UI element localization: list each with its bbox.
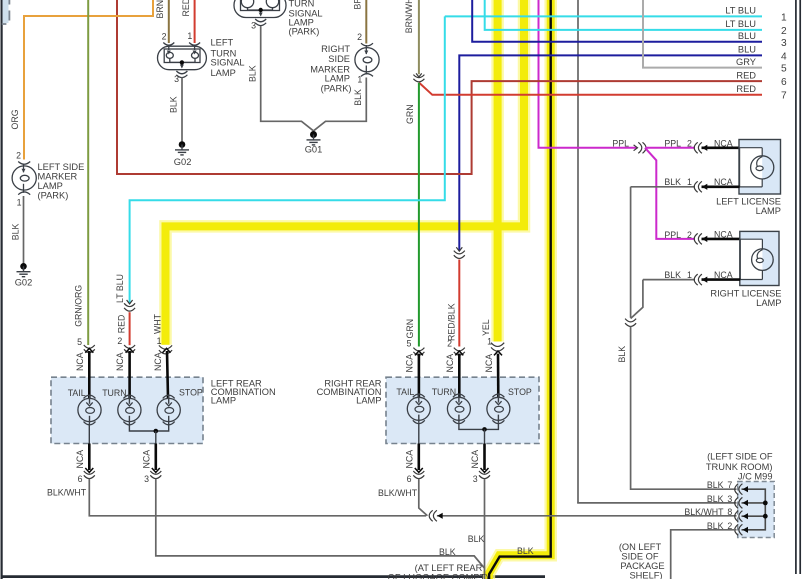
svg-text:NCA: NCA	[445, 354, 455, 373]
svg-text:1: 1	[781, 12, 787, 23]
junction connector box J/C M99	[738, 482, 775, 538]
svg-text:(ON LEFT: (ON LEFT	[619, 542, 662, 552]
wire BLK from right rear lamp pin 3 to bottom edge	[468, 479, 485, 579]
svg-text:RED: RED	[181, 0, 191, 17]
svg-text:LT BLU: LT BLU	[725, 19, 756, 29]
svg-text:NCA: NCA	[75, 450, 85, 469]
svg-text:2: 2	[357, 32, 362, 42]
svg-text:PPL: PPL	[664, 139, 681, 149]
svg-text:GRN: GRN	[405, 319, 415, 339]
label LEFT TURN SIGNAL LAMP	[211, 37, 245, 78]
svg-text:(AT LEFT REAR: (AT LEFT REAR	[415, 563, 483, 573]
bulb TURN (right)	[447, 393, 470, 423]
NCA stub into right license lamp pin 2	[664, 230, 740, 242]
pin 6 NCA stub below box (left)	[75, 444, 95, 484]
svg-text:LAMP: LAMP	[325, 74, 350, 84]
svg-text:5: 5	[406, 338, 411, 348]
svg-text:TURN: TURN	[432, 387, 456, 397]
lamp: LEFT SIDE MARKER LAMP (PARK) bulb	[12, 162, 36, 195]
inline connector LT BLU to RED	[124, 300, 135, 311]
page right border (double line)	[795, 0, 797, 574]
svg-text:3: 3	[781, 38, 787, 49]
svg-text:TAIL: TAIL	[396, 387, 414, 397]
connector at right license lamp pin 2	[694, 233, 702, 244]
svg-text:BLK/WHT: BLK/WHT	[47, 487, 87, 497]
svg-text:6: 6	[407, 474, 412, 484]
wire BLK running on yellow companion to bottom edge	[489, 0, 551, 579]
ground G01	[305, 130, 323, 155]
tail wire to box bottom (left)	[88, 424, 90, 444]
page bottom border	[1, 575, 545, 578]
svg-text:SIGNAL: SIGNAL	[211, 58, 245, 68]
svg-text:LAMP: LAMP	[356, 396, 381, 406]
svg-text:G02: G02	[174, 157, 192, 167]
svg-text:TURN: TURN	[289, 0, 315, 9]
svg-text:NCA: NCA	[404, 450, 414, 469]
wire YEL to right rear lamp pin 1	[494, 0, 502, 342]
wire BLK/yellow-pair halo	[489, 0, 551, 579]
NCA stub into left license lamp pin 2	[664, 138, 739, 151]
svg-text:BLK: BLK	[353, 89, 363, 106]
svg-text:1: 1	[17, 198, 22, 208]
wire WHT halo	[166, 0, 525, 345]
bulb STOP (right)	[487, 393, 510, 423]
svg-text:TURN: TURN	[102, 388, 126, 398]
svg-text:2: 2	[687, 230, 692, 240]
component box: RIGHT REAR COMBINATION LAMP	[386, 377, 539, 443]
wire BLK from top edge to J/C M99 pin 3 (vertical part)	[577, 0, 579, 503]
svg-text:BRN: BRN	[353, 0, 363, 10]
pin 1 NCA stub (left stop)	[153, 348, 171, 398]
bulb labels TAIL TURN STOP (left)	[68, 388, 203, 398]
junction dot inside top lamp	[259, 8, 263, 12]
wire PPL from top to inline connector	[539, 139, 637, 149]
inline connector on BLK/WHT run	[429, 510, 437, 521]
pin 5 connector and NCA stub (right tail)	[405, 338, 425, 397]
bulb labels TAIL TURN STOP (right)	[396, 387, 532, 397]
wire RED/BLK segment to right rear lamp pin 2	[447, 260, 460, 347]
svg-text:2: 2	[117, 336, 122, 346]
svg-text:STOP: STOP	[508, 387, 532, 397]
wire BLK from right license pin 1 joining down-wire	[631, 280, 643, 319]
pin 2 connector and NCA stub (left turn)	[115, 336, 135, 398]
lamp: LEFT TURN SIGNAL LAMP (dual filament)	[158, 43, 207, 78]
pin 6 NCA stub below box (right)	[404, 444, 424, 484]
svg-text:BLK: BLK	[517, 546, 534, 556]
label LEFT SIDE MARKER LAMP (PARK)	[38, 162, 85, 201]
svg-text:LAMP: LAMP	[756, 298, 781, 308]
svg-text:BLK: BLK	[439, 547, 456, 557]
svg-text:3: 3	[473, 474, 478, 484]
connector at left license lamp pin 2	[694, 142, 702, 153]
svg-text:LAMP: LAMP	[38, 181, 63, 191]
junction dot inside left turn signal lamp	[180, 60, 184, 64]
svg-text:SIDE OF: SIDE OF	[621, 551, 659, 561]
svg-text:G02: G02	[15, 278, 33, 288]
wire BLK from J/C M99 pin 2 down to bottom edge	[671, 530, 737, 579]
wire BLU terminal 4 (goes down to become RED/BLK)	[459, 45, 787, 251]
label RIGHT SIDE MARKER LAMP (PARK)	[310, 44, 351, 94]
lamp: RIGHT SIDE MARKER LAMP (PARK) bulb	[355, 43, 379, 76]
svg-text:SHELF): SHELF)	[629, 570, 662, 579]
svg-text:3: 3	[174, 74, 179, 84]
svg-text:BLK: BLK	[169, 96, 179, 113]
svg-text:BLK: BLK	[664, 177, 681, 187]
J/C M99 internal bus with junction dots	[742, 489, 766, 530]
wire BLK/WHT from right rear lamp pin 6 to connector	[419, 479, 428, 516]
wire BLU terminal 3	[472, 0, 787, 49]
junction dot (left rear lamp)	[154, 429, 159, 434]
wire LT BLU terminal 2	[485, 0, 787, 37]
wire RED terminal 6 (runs left, down, left and up off top edge)	[117, 0, 787, 174]
wire BLK from right side marker pin 1 to G01	[314, 78, 367, 131]
svg-text:8: 8	[727, 507, 732, 517]
wire BRN to right side marker lamp pin 2	[353, 0, 367, 44]
wire BLK from top edge to J/C M99 pin 3	[578, 502, 737, 503]
svg-text:LEFT SIDE: LEFT SIDE	[38, 162, 85, 172]
connector at J/C M99 pin 7	[735, 484, 743, 495]
wire BLK/WHT continues to J/C M99 pin 8	[437, 515, 737, 517]
svg-text:6: 6	[781, 77, 787, 88]
internal junction wire turn+stop to pin 3 (left)	[129, 424, 168, 432]
svg-text:(PARK): (PARK)	[38, 191, 69, 201]
wire BLK from left license pin 1 down to J/C M99 pin 7	[630, 187, 632, 318]
svg-text:TAIL: TAIL	[68, 388, 86, 398]
pin 3 NCA stub below box (right)	[470, 444, 490, 484]
wire BLK from left side marker pin 1 to G02	[10, 196, 23, 266]
svg-text:LEFT LICENSE: LEFT LICENSE	[716, 196, 781, 206]
wire BLK/WHT from left rear lamp pin 6 to junction connector	[89, 479, 426, 516]
svg-text:2: 2	[447, 338, 452, 348]
bulb TURN (left)	[118, 395, 141, 425]
svg-text:5: 5	[781, 64, 787, 75]
svg-text:3: 3	[144, 474, 149, 484]
svg-text:NCA: NCA	[115, 352, 125, 371]
connector at left license lamp pin 1	[694, 181, 702, 192]
svg-text:GRN/ORG: GRN/ORG	[74, 285, 84, 327]
wire BLK from left rear lamp pin 3 to bottom merge	[156, 479, 485, 569]
svg-text:NCA: NCA	[714, 270, 733, 280]
top-left torn page icon	[2, 0, 10, 24]
ground G02 (left turn signal lamp)	[174, 141, 192, 167]
bulb TAIL (right)	[407, 393, 430, 423]
connector at J/C M99 pin 3	[735, 497, 743, 508]
svg-text:SIDE: SIDE	[328, 54, 350, 64]
wire GRY terminal 5	[643, 0, 787, 75]
svg-text:GRY: GRY	[736, 57, 756, 67]
svg-text:NCA: NCA	[75, 352, 85, 371]
label LEFT REAR COMBINATION LAMP	[211, 378, 276, 405]
svg-text:BLK: BLK	[707, 494, 724, 504]
pin 2 connector and NCA stub (right turn)	[445, 338, 465, 397]
wire BRN to left turn signal lamp pin 2	[155, 0, 169, 43]
svg-text:G01: G01	[305, 145, 323, 155]
svg-text:LAMP: LAMP	[756, 206, 781, 216]
wire RED to left turn signal lamp pin 1	[181, 0, 195, 43]
junction dot (right rear lamp)	[482, 427, 487, 432]
tail wire to box bottom (right)	[418, 422, 420, 443]
wire GRN from splice down to right rear lamp pin 5	[405, 83, 419, 347]
svg-text:NCA: NCA	[714, 138, 733, 148]
svg-text:BLK: BLK	[247, 65, 257, 82]
svg-text:PPL: PPL	[612, 139, 629, 149]
svg-text:3: 3	[727, 494, 732, 504]
svg-text:GRN: GRN	[405, 104, 415, 124]
svg-text:BLK/WHT: BLK/WHT	[684, 507, 724, 517]
wire RED segment to left rear lamp pin 2	[117, 312, 130, 345]
wire RED terminal 7 (from BRN/WHT splice)	[419, 83, 787, 102]
inline connector WHT to NCA	[159, 345, 172, 353]
svg-text:RED/BLK: RED/BLK	[447, 303, 457, 341]
wire BRN/WHT from top to splice	[404, 0, 419, 74]
svg-text:YEL: YEL	[481, 319, 491, 336]
svg-text:LT BLU: LT BLU	[115, 274, 125, 303]
svg-text:NCA: NCA	[141, 450, 151, 469]
splice connector (BRN/WHT to GRN and RED)	[413, 73, 424, 81]
wire YEL halo	[491, 0, 504, 342]
inline connector YEL to NCA	[491, 343, 504, 351]
svg-text:4: 4	[781, 51, 787, 62]
wire GRN/ORG from top to left rear lamp pin 5	[74, 0, 89, 345]
svg-text:STOP: STOP	[179, 388, 203, 398]
svg-text:WHT: WHT	[152, 313, 162, 334]
svg-text:1: 1	[357, 75, 362, 85]
svg-text:LT BLU: LT BLU	[725, 6, 756, 16]
label RIGHT REAR COMBINATION LAMP	[317, 378, 382, 405]
svg-text:BLK: BLK	[707, 480, 724, 490]
svg-text:5: 5	[77, 337, 82, 347]
svg-text:7: 7	[727, 480, 732, 490]
svg-text:RED: RED	[736, 70, 756, 80]
svg-text:1: 1	[487, 337, 492, 347]
wire ORG to left side marker lamp pin 2	[10, 0, 153, 160]
svg-text:2: 2	[16, 151, 21, 161]
wire BLK from left license lamp pin 1	[631, 177, 695, 187]
svg-text:J/C M99: J/C M99	[738, 471, 773, 481]
svg-text:ORG: ORG	[10, 109, 20, 129]
yellow companion of BLK wire pair	[489, 0, 551, 579]
pin 5 connector and NCA stub (left tail)	[75, 337, 95, 398]
svg-text:1: 1	[157, 336, 162, 346]
label (LEFT SIDE OF TRUNK ROOM) J/C M99	[706, 452, 773, 482]
label (AT LEFT REAR OF LUGGAGE COMPT)	[388, 563, 489, 579]
NCA stub into right license lamp pin 1	[702, 270, 741, 283]
internal junction wire turn+stop to pin 3 (right)	[459, 422, 499, 429]
wire BLK continues to J/C M99 pin 7	[617, 327, 737, 490]
pin 3 NCA stub below box (left)	[141, 444, 161, 484]
svg-text:1: 1	[687, 270, 692, 280]
wire PPL vertical from top	[538, 0, 540, 148]
svg-text:BRN: BRN	[155, 0, 165, 19]
svg-text:LEFT: LEFT	[211, 37, 234, 47]
connector at J/C M99 pin 2	[735, 524, 743, 535]
ground G02 (left side marker)	[15, 263, 33, 288]
wire LT BLU terminal 1 (horizontal)	[445, 6, 787, 24]
lamp: RIGHT LICENSE LAMP	[710, 231, 781, 308]
inline connector BLU to RED/BLK	[454, 247, 465, 258]
wire WHT to left rear lamp pin 1	[166, 0, 525, 345]
component box: LEFT REAR COMBINATION LAMP	[51, 377, 203, 443]
wire PPL continues to left license lamp pin 2 and branches to right license lamp	[645, 148, 695, 239]
svg-text:NCA: NCA	[484, 354, 494, 373]
svg-text:NCA: NCA	[470, 450, 480, 469]
page left border	[1, 0, 3, 579]
svg-text:BLK: BLK	[617, 346, 627, 363]
wire LT BLU from terminal 1 down and across to left rear lamp pin 2	[115, 16, 445, 303]
svg-text:1: 1	[187, 31, 192, 41]
label (ON LEFT SIDE OF PACKAGE SHELF)	[619, 542, 665, 579]
svg-text:RED: RED	[117, 315, 127, 334]
connector at right license lamp pin 1	[694, 274, 702, 285]
svg-text:RED: RED	[736, 84, 756, 94]
wire BLK from right license lamp pin 1	[643, 270, 695, 280]
bulb TAIL (left)	[78, 395, 101, 425]
inline connector PPL	[634, 142, 646, 153]
svg-text:RIGHT: RIGHT	[321, 44, 350, 54]
NCA stub into left license lamp pin 1	[702, 177, 740, 190]
svg-text:(PARK): (PARK)	[289, 27, 320, 37]
svg-text:BRN/WHT: BRN/WHT	[404, 0, 414, 33]
svg-text:BLU: BLU	[738, 31, 756, 41]
svg-text:NCA: NCA	[153, 352, 163, 371]
svg-text:(LEFT SIDE OF: (LEFT SIDE OF	[707, 452, 773, 462]
lamp: LEFT LICENSE LAMP	[716, 140, 781, 216]
svg-text:LAMP: LAMP	[211, 68, 236, 78]
inline connector on BLK down-wire	[625, 319, 636, 327]
svg-text:3: 3	[251, 21, 256, 31]
svg-text:PACKAGE: PACKAGE	[620, 561, 664, 571]
lamp: TURN SIGNAL LAMP (PARK) top, cut off by page edge	[234, 0, 286, 26]
svg-text:(PARK): (PARK)	[321, 84, 352, 94]
svg-text:1: 1	[687, 177, 692, 187]
svg-text:BLK/WHT: BLK/WHT	[378, 488, 418, 498]
svg-text:NCA: NCA	[405, 354, 415, 373]
svg-text:LAMP: LAMP	[211, 396, 236, 406]
wire BLK from left turn signal lamp pin 3 to G02	[169, 78, 182, 145]
svg-text:BLK: BLK	[10, 224, 20, 241]
svg-text:7: 7	[781, 91, 787, 102]
svg-text:BLU: BLU	[738, 45, 756, 55]
svg-text:2: 2	[781, 26, 787, 37]
svg-text:BLK: BLK	[664, 270, 681, 280]
exit arrow of top lamp	[259, 13, 263, 17]
wire BLK from top lamp pin 3 to G01	[247, 26, 313, 131]
svg-text:NCA: NCA	[714, 230, 733, 240]
connector at J/C M99 pin 8	[735, 511, 743, 522]
svg-text:BLK: BLK	[468, 534, 485, 544]
pin 1 NCA stub (right stop)	[484, 351, 502, 397]
bulb STOP (left)	[157, 395, 180, 425]
svg-text:2: 2	[687, 139, 692, 149]
label TURN SIGNAL LAMP (PARK)	[289, 0, 323, 37]
svg-text:2: 2	[162, 32, 167, 42]
svg-text:OF LUGGAGE COMPT): OF LUGGAGE COMPT)	[388, 573, 489, 579]
svg-text:PPL: PPL	[664, 230, 681, 240]
svg-text:NCA: NCA	[714, 177, 733, 187]
pin arrows of left turn signal lamp	[167, 51, 197, 69]
svg-text:6: 6	[78, 474, 83, 484]
